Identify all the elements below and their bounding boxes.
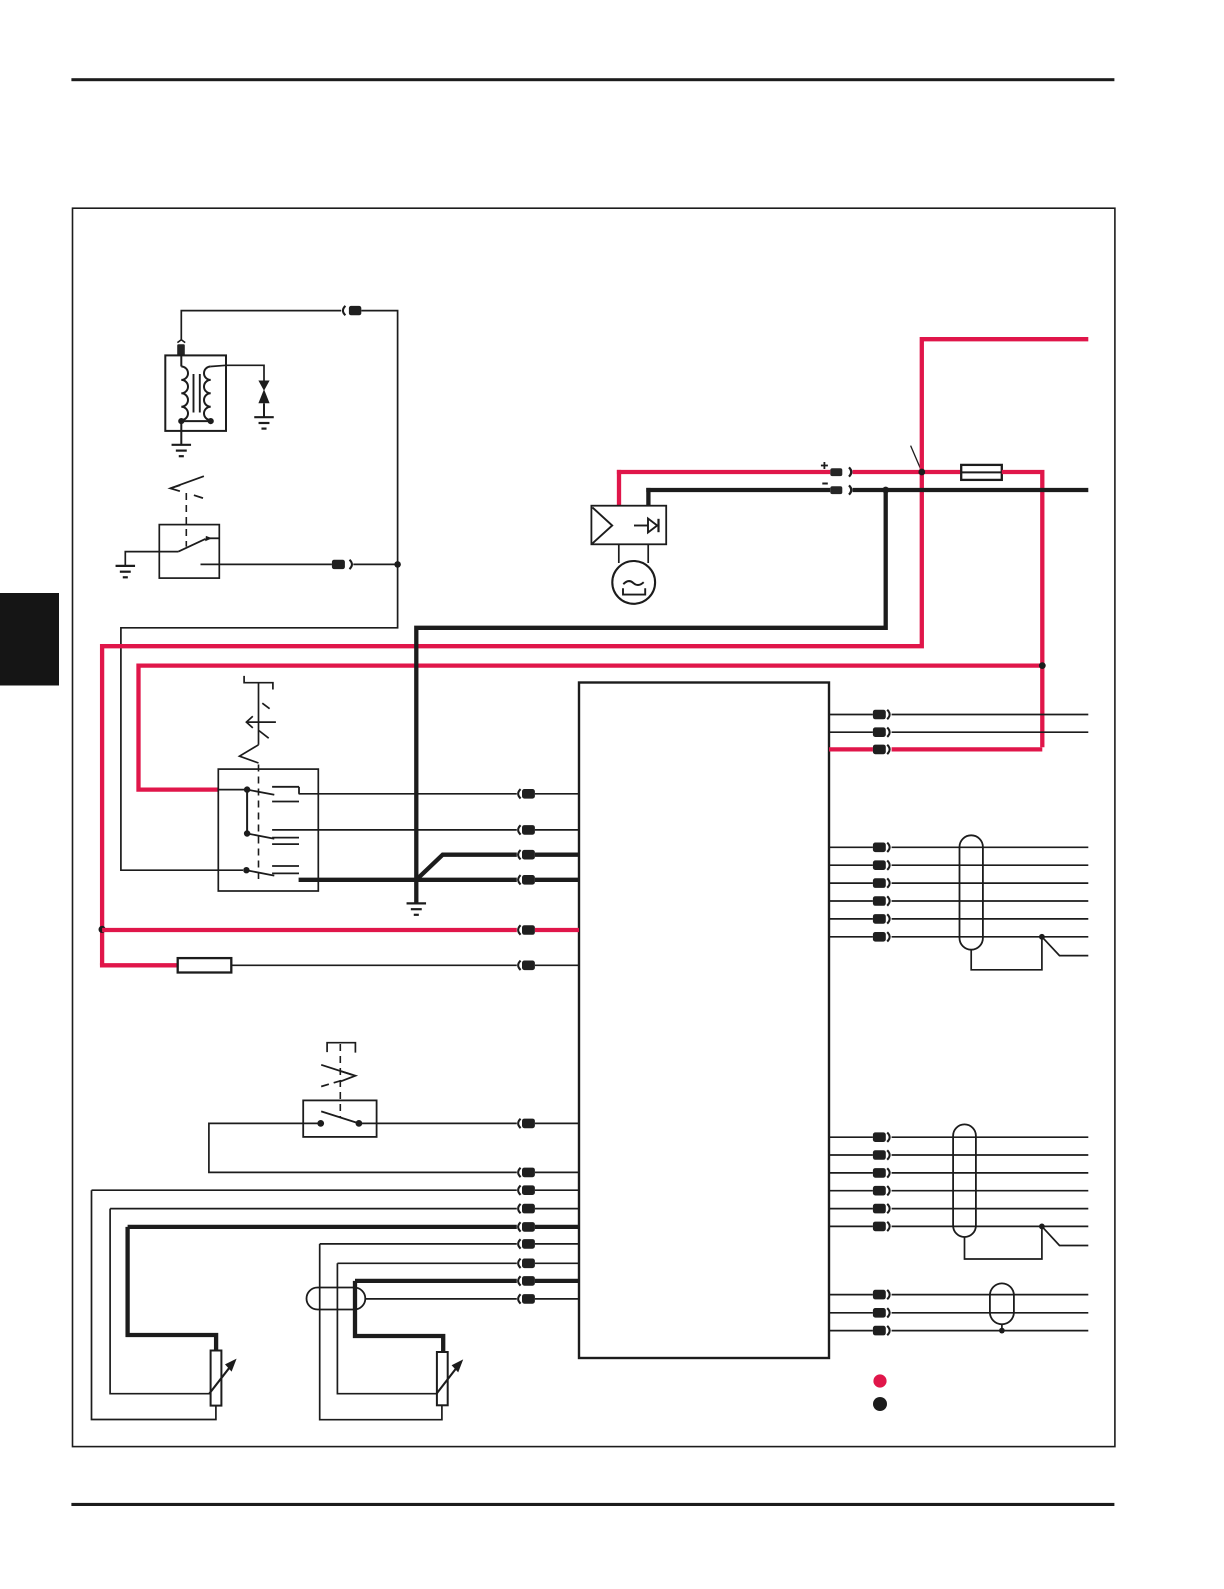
wire regulator to alternator [618,544,620,563]
shield B pigtail wire [1042,1226,1088,1245]
fuse F2 [178,958,232,972]
ground main [407,902,427,904]
harness row 2 [829,864,873,866]
fuse F2 lead red [100,963,178,967]
key switch pole3 fixed bars [272,865,299,867]
key symbol stem [258,683,260,745]
spark arrester D1 [258,381,269,391]
key switch pole2 contact [244,830,250,836]
harness B row 3 [829,1172,873,1174]
pto symbol chevron [341,1071,356,1081]
key pole1 wire y793.8 [299,793,517,795]
harness B row 1 [829,1136,873,1138]
coil core [193,374,195,413]
regulator red lead [617,470,621,507]
pto row connector B [518,1168,520,1177]
harness row 4 [829,900,873,902]
key symbol dash upper [262,703,269,709]
connector plus [830,468,842,476]
label minus [822,483,828,485]
wire coil secondary to arrester [211,365,264,380]
wire black minus to right [853,488,1089,492]
harness B row 2 [829,1154,873,1156]
key symbol dash lower [259,731,269,739]
pto switch left contact [317,1120,324,1127]
coil secondary winding [204,367,211,421]
sensor1 wire low y1190.2 [92,1189,517,1191]
key switch pole1 fixed bars [272,786,299,788]
wire red plus to fuse [853,470,962,474]
wire thick minus drop [416,490,885,903]
callout line [911,446,922,471]
wire red top feed [922,339,1089,470]
controller right row 3 red [829,747,873,751]
sensor1 signal wire [128,1227,217,1351]
connector minus [830,486,842,494]
kill switch connector [332,560,345,569]
sensor1 tap wire [110,1209,211,1394]
sensor1 arrow [209,1367,230,1394]
sensor2 tap wire [337,1263,437,1393]
kill switch wire to ground [125,552,178,566]
pto switch right contact [356,1120,363,1127]
diagram frame [73,208,1115,1446]
wire thick pole3 to ground node [299,878,517,882]
sensor2 wire signal y1280.9 [355,1279,517,1283]
sensor2 signal wire [355,1281,443,1352]
kill switch output wire [201,563,332,565]
red accessory wire y930.0 [102,928,517,932]
sensor2 arrow [436,1368,457,1395]
sensor1 RT1 body [211,1351,222,1406]
pto symbol T-bar [327,1043,355,1053]
shield drain wire [971,937,1042,970]
kill switch S1 box [159,525,219,579]
coil primary bottom terminal [178,418,184,424]
node minus junction [882,487,889,494]
wire node A down-left to key switch pole 3 [121,564,398,870]
sensor2 shield wire y1298.9 [365,1298,517,1300]
key symbol arrow [246,721,276,723]
harness B shield capsule [953,1124,976,1237]
pto symbol dash lower [321,1080,345,1087]
key symbol T-bar [244,676,273,690]
key switch pole1-2 link [246,790,248,834]
coil ground wire [180,421,182,445]
kill switch arm [178,539,205,552]
regulator diode symbol [634,525,648,527]
controller right row 1 [829,714,873,716]
harness row 5 [829,918,873,920]
node shield B junction [1039,1224,1045,1230]
fused accessory wire y965.3 [232,964,517,966]
label plus [821,465,828,467]
key switch linkage dashed [258,765,260,880]
ignition coil T1 box [165,355,226,431]
kill switch actuator symbol [170,476,204,488]
regulator triangle symbol [592,507,612,543]
wire red main drop left [102,472,922,965]
sensor2 wire tap y1263.3 [337,1262,516,1264]
harness B row 4 [829,1190,873,1192]
key switch pole2 fixed bars [272,837,299,839]
pto wire left loop [209,1123,517,1172]
fuse F1 [961,465,1002,480]
sensor1 wire tap y1208.6 [110,1208,517,1210]
spark plug connector [343,306,345,315]
kill switch linkage dashed [185,493,187,547]
harness row 6 [829,936,873,938]
coil secondary bottom terminal [208,418,214,424]
key switch S2 box [218,769,318,891]
pto switch arm [321,1111,359,1123]
alternator wave symbol [623,581,643,585]
regulator black lead [646,488,650,507]
shield B drain wire [965,1226,1042,1259]
harness row 3 [829,882,873,884]
sensor2 connector capsule [307,1288,366,1310]
page top rule [71,78,1114,81]
harness row 1 [829,846,873,848]
node red right junction [1039,662,1046,669]
pto row connector A [518,1119,520,1128]
pto symbol diagonal [321,1065,352,1075]
sensor1 wire signal y1226.9 [128,1225,517,1229]
node A junction [394,561,401,568]
sensor2 wire low y1243.9 [320,1243,517,1245]
pto wire right [359,1122,517,1124]
harness B row 6 [829,1225,873,1227]
left edge section tab [0,593,59,686]
wire red regulator plus row [617,470,830,474]
node shield junction [1039,934,1045,940]
wire coil top to spark plug connector [181,311,341,341]
coil bottom link wire [181,420,210,422]
key switch pole3 contact [243,867,249,873]
ground branch wire A y854.7 [518,850,520,859]
wire red fuse to right drop [1002,472,1043,747]
controller right row 2 [829,731,873,733]
alternator G1 circle [612,561,655,604]
controller module box [579,683,829,1359]
ground arrester [254,416,274,418]
legend black wire dot [873,1397,887,1411]
harness B row 5 [829,1208,873,1210]
sensor1 loop low [92,1190,216,1419]
wire spark connector to node A [361,311,397,565]
wire black minus row [646,488,830,492]
small shield drain [1001,1324,1003,1330]
sensor harness row 2 [829,1312,873,1314]
ignition coil T1 top terminal [177,340,185,343]
key symbol zigzag [240,745,259,763]
small shield capsule [990,1283,1014,1324]
node red accessory junction [99,926,106,933]
node small shield junction [999,1328,1005,1334]
coil primary winding [180,355,182,366]
node red junction [918,469,925,476]
wire thick branch diagonal [416,855,517,880]
sensor2 loop low [320,1244,442,1420]
sensor2 RT2 body [437,1352,448,1405]
ground coil [172,444,192,446]
ground branch wire B y879.8 [518,875,520,884]
page bottom rule [71,1503,1114,1506]
key pole2 wire y829.9 [272,829,517,831]
pto switch S3 box [303,1100,376,1137]
harness shield capsule [960,835,983,949]
shield pigtail wire [1042,937,1088,956]
sensor harness row 3 [829,1330,873,1332]
wire red keyswitch feed [139,666,1041,790]
ground kill switch [116,565,136,567]
regulator U1 box [591,506,666,545]
key switch pole1 contact [244,786,250,792]
legend red wire dot [873,1374,886,1387]
wire kill connector to node A [353,563,397,565]
pto linkage dashed upper [339,1044,341,1118]
wire red stub to pole1 [218,789,247,791]
sensor harness row 1 [829,1294,873,1296]
